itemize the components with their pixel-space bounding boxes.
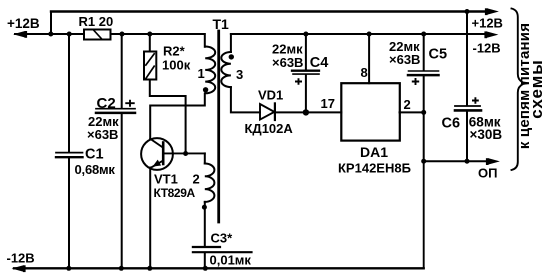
resistor R1 bbox=[84, 30, 111, 40]
wire right vertical to bottom rail bbox=[423, 161, 425, 268]
capacitor C2 bbox=[96, 108, 135, 110]
svg-text:1: 1 bbox=[198, 66, 205, 81]
wire R2 bottom to collector node bbox=[150, 80, 186, 154]
node collector junction dot bbox=[183, 151, 188, 156]
svg-text:VT1: VT1 bbox=[154, 172, 178, 187]
node junction dot C1 bottom bbox=[66, 266, 71, 271]
svg-text:3: 3 bbox=[236, 67, 243, 82]
diode VD1 bbox=[260, 104, 274, 120]
node junction dot OP C6 bbox=[465, 159, 470, 164]
svg-text:0,68мк: 0,68мк bbox=[75, 162, 116, 177]
svg-text:-12В: -12В bbox=[7, 250, 35, 265]
transformer T1 winding 1 bbox=[205, 47, 215, 94]
svg-text:R1 20: R1 20 bbox=[79, 14, 114, 29]
wire base from winding1 bottom bbox=[150, 94, 205, 139]
svg-text:КД102А: КД102А bbox=[245, 121, 294, 136]
wire bottom -12V rail bbox=[14, 267, 424, 269]
node left arrow +12V bbox=[15, 32, 25, 37]
svg-text:КР142ЕН8Б: КР142ЕН8Б bbox=[338, 160, 411, 175]
svg-text:100к: 100к bbox=[162, 58, 191, 73]
node junction dot C3 bottom bbox=[203, 266, 208, 271]
svg-text:C6: C6 bbox=[442, 116, 461, 132]
wire C4 branch upper bbox=[305, 34, 307, 70]
node OP arrow bbox=[489, 159, 499, 164]
node junction dot C2 bottom bbox=[119, 266, 124, 271]
capacitor C4 polarity bbox=[295, 78, 302, 85]
svg-text:×63В: ×63В bbox=[272, 55, 303, 70]
node winding1 polarity dot bbox=[203, 87, 208, 92]
capacitor C4 bbox=[292, 70, 319, 72]
svg-text:КТ829А: КТ829А bbox=[154, 186, 196, 200]
wire vertical from left arrow up to top rail bbox=[50, 12, 52, 35]
svg-text:×63В: ×63В bbox=[87, 127, 118, 142]
wire C5 branch upper bbox=[423, 34, 425, 70]
wire top +12V rail bbox=[51, 10, 486, 12]
wire emitter lead down bbox=[149, 168, 151, 269]
node junction dot C1 top bbox=[67, 32, 72, 37]
wire right rail -12V bbox=[231, 33, 484, 35]
svg-text:C5: C5 bbox=[429, 47, 448, 63]
wire C1 branch lower bbox=[68, 158, 70, 268]
svg-text:2: 2 bbox=[404, 97, 411, 112]
svg-text:+12В: +12В bbox=[472, 16, 503, 31]
capacitor C5 polarity bbox=[412, 78, 419, 85]
transformer T1 winding 3 bbox=[230, 34, 232, 52]
svg-text:C4: C4 bbox=[310, 55, 329, 71]
svg-text:-12В: -12В bbox=[473, 41, 501, 56]
node junction dot R2 top bbox=[147, 32, 152, 37]
svg-text:0,01мк: 0,01мк bbox=[210, 253, 252, 268]
brace right bbox=[512, 9, 528, 171]
node junction dot pin2 bbox=[421, 110, 426, 115]
capacitor C6 polarity bbox=[472, 97, 479, 104]
transistor VT1 bbox=[141, 138, 173, 170]
wire diode to pin17 bbox=[275, 111, 341, 113]
svg-text:8: 8 bbox=[361, 65, 368, 80]
wire R1 right to transformer bbox=[111, 33, 205, 35]
node junction dot pin8 top bbox=[367, 32, 372, 37]
svg-text:2: 2 bbox=[193, 172, 200, 187]
svg-text:C1: C1 bbox=[85, 147, 104, 163]
node junction dot x51 bbox=[48, 32, 53, 37]
svg-text:схемы: схемы bbox=[527, 59, 546, 119]
svg-text:DA1: DA1 bbox=[360, 144, 388, 160]
wire C3 bottom bbox=[204, 253, 206, 268]
capacitor C1 bbox=[56, 152, 83, 154]
svg-text:C2: C2 bbox=[97, 95, 116, 112]
node winding3 polarity dot bbox=[229, 54, 234, 59]
wire C4 branch lower bbox=[305, 75, 307, 112]
node right arrow -12V bbox=[487, 32, 497, 37]
wire C2 branch upper bbox=[121, 34, 123, 108]
svg-text:+12В: +12В bbox=[7, 16, 40, 31]
capacitor C6 bbox=[455, 105, 480, 107]
wire R2 top lead bbox=[149, 34, 151, 52]
node left arrow -12V bbox=[14, 266, 24, 271]
wire C6 branch lower bbox=[466, 112, 468, 162]
wire C6 branch upper bbox=[466, 12, 468, 106]
wire pin 8 bbox=[368, 34, 370, 83]
wire winding3 bottom to diode bbox=[231, 87, 260, 112]
capacitor C5 bbox=[409, 70, 439, 72]
svg-text:R2*: R2* bbox=[163, 44, 186, 59]
node junction dot top rail right bbox=[465, 9, 470, 14]
svg-text:VD1: VD1 bbox=[258, 88, 283, 103]
wire winding2 to C3 bbox=[204, 202, 206, 246]
transformer T1 core bbox=[217, 31, 220, 222]
node junction dot OP left bbox=[421, 159, 426, 164]
wire C1 branch upper bbox=[68, 34, 70, 152]
node junction dot pin17 bbox=[303, 109, 309, 115]
op-amp DA1 box bbox=[341, 83, 400, 140]
svg-text:×30В: ×30В bbox=[470, 127, 503, 142]
wire OP line bbox=[424, 160, 486, 162]
wire C5 branch lower bbox=[423, 76, 425, 161]
resistor R2 bbox=[144, 52, 156, 80]
wire pin 2 bbox=[400, 111, 424, 113]
node junction dot C2 top bbox=[120, 32, 125, 37]
node winding2 polarity dot bbox=[202, 205, 207, 210]
svg-text:T1: T1 bbox=[213, 16, 230, 32]
wire left +12V arrow feed bbox=[15, 33, 84, 35]
node junction dot emitter bottom bbox=[147, 266, 152, 271]
capacitor C3 bbox=[193, 246, 220, 248]
svg-text:17: 17 bbox=[321, 96, 335, 111]
svg-text:×63В: ×63В bbox=[389, 52, 420, 67]
svg-text:ОП: ОП bbox=[478, 166, 497, 181]
transformer T1 winding 2 bbox=[204, 153, 206, 163]
svg-text:C3*: C3* bbox=[211, 231, 234, 246]
node right arrow +12V bbox=[488, 9, 498, 14]
node junction dot C5 top bbox=[421, 32, 426, 37]
wire C2 branch lower bbox=[121, 114, 123, 268]
node junction dot C4 top bbox=[303, 32, 308, 37]
